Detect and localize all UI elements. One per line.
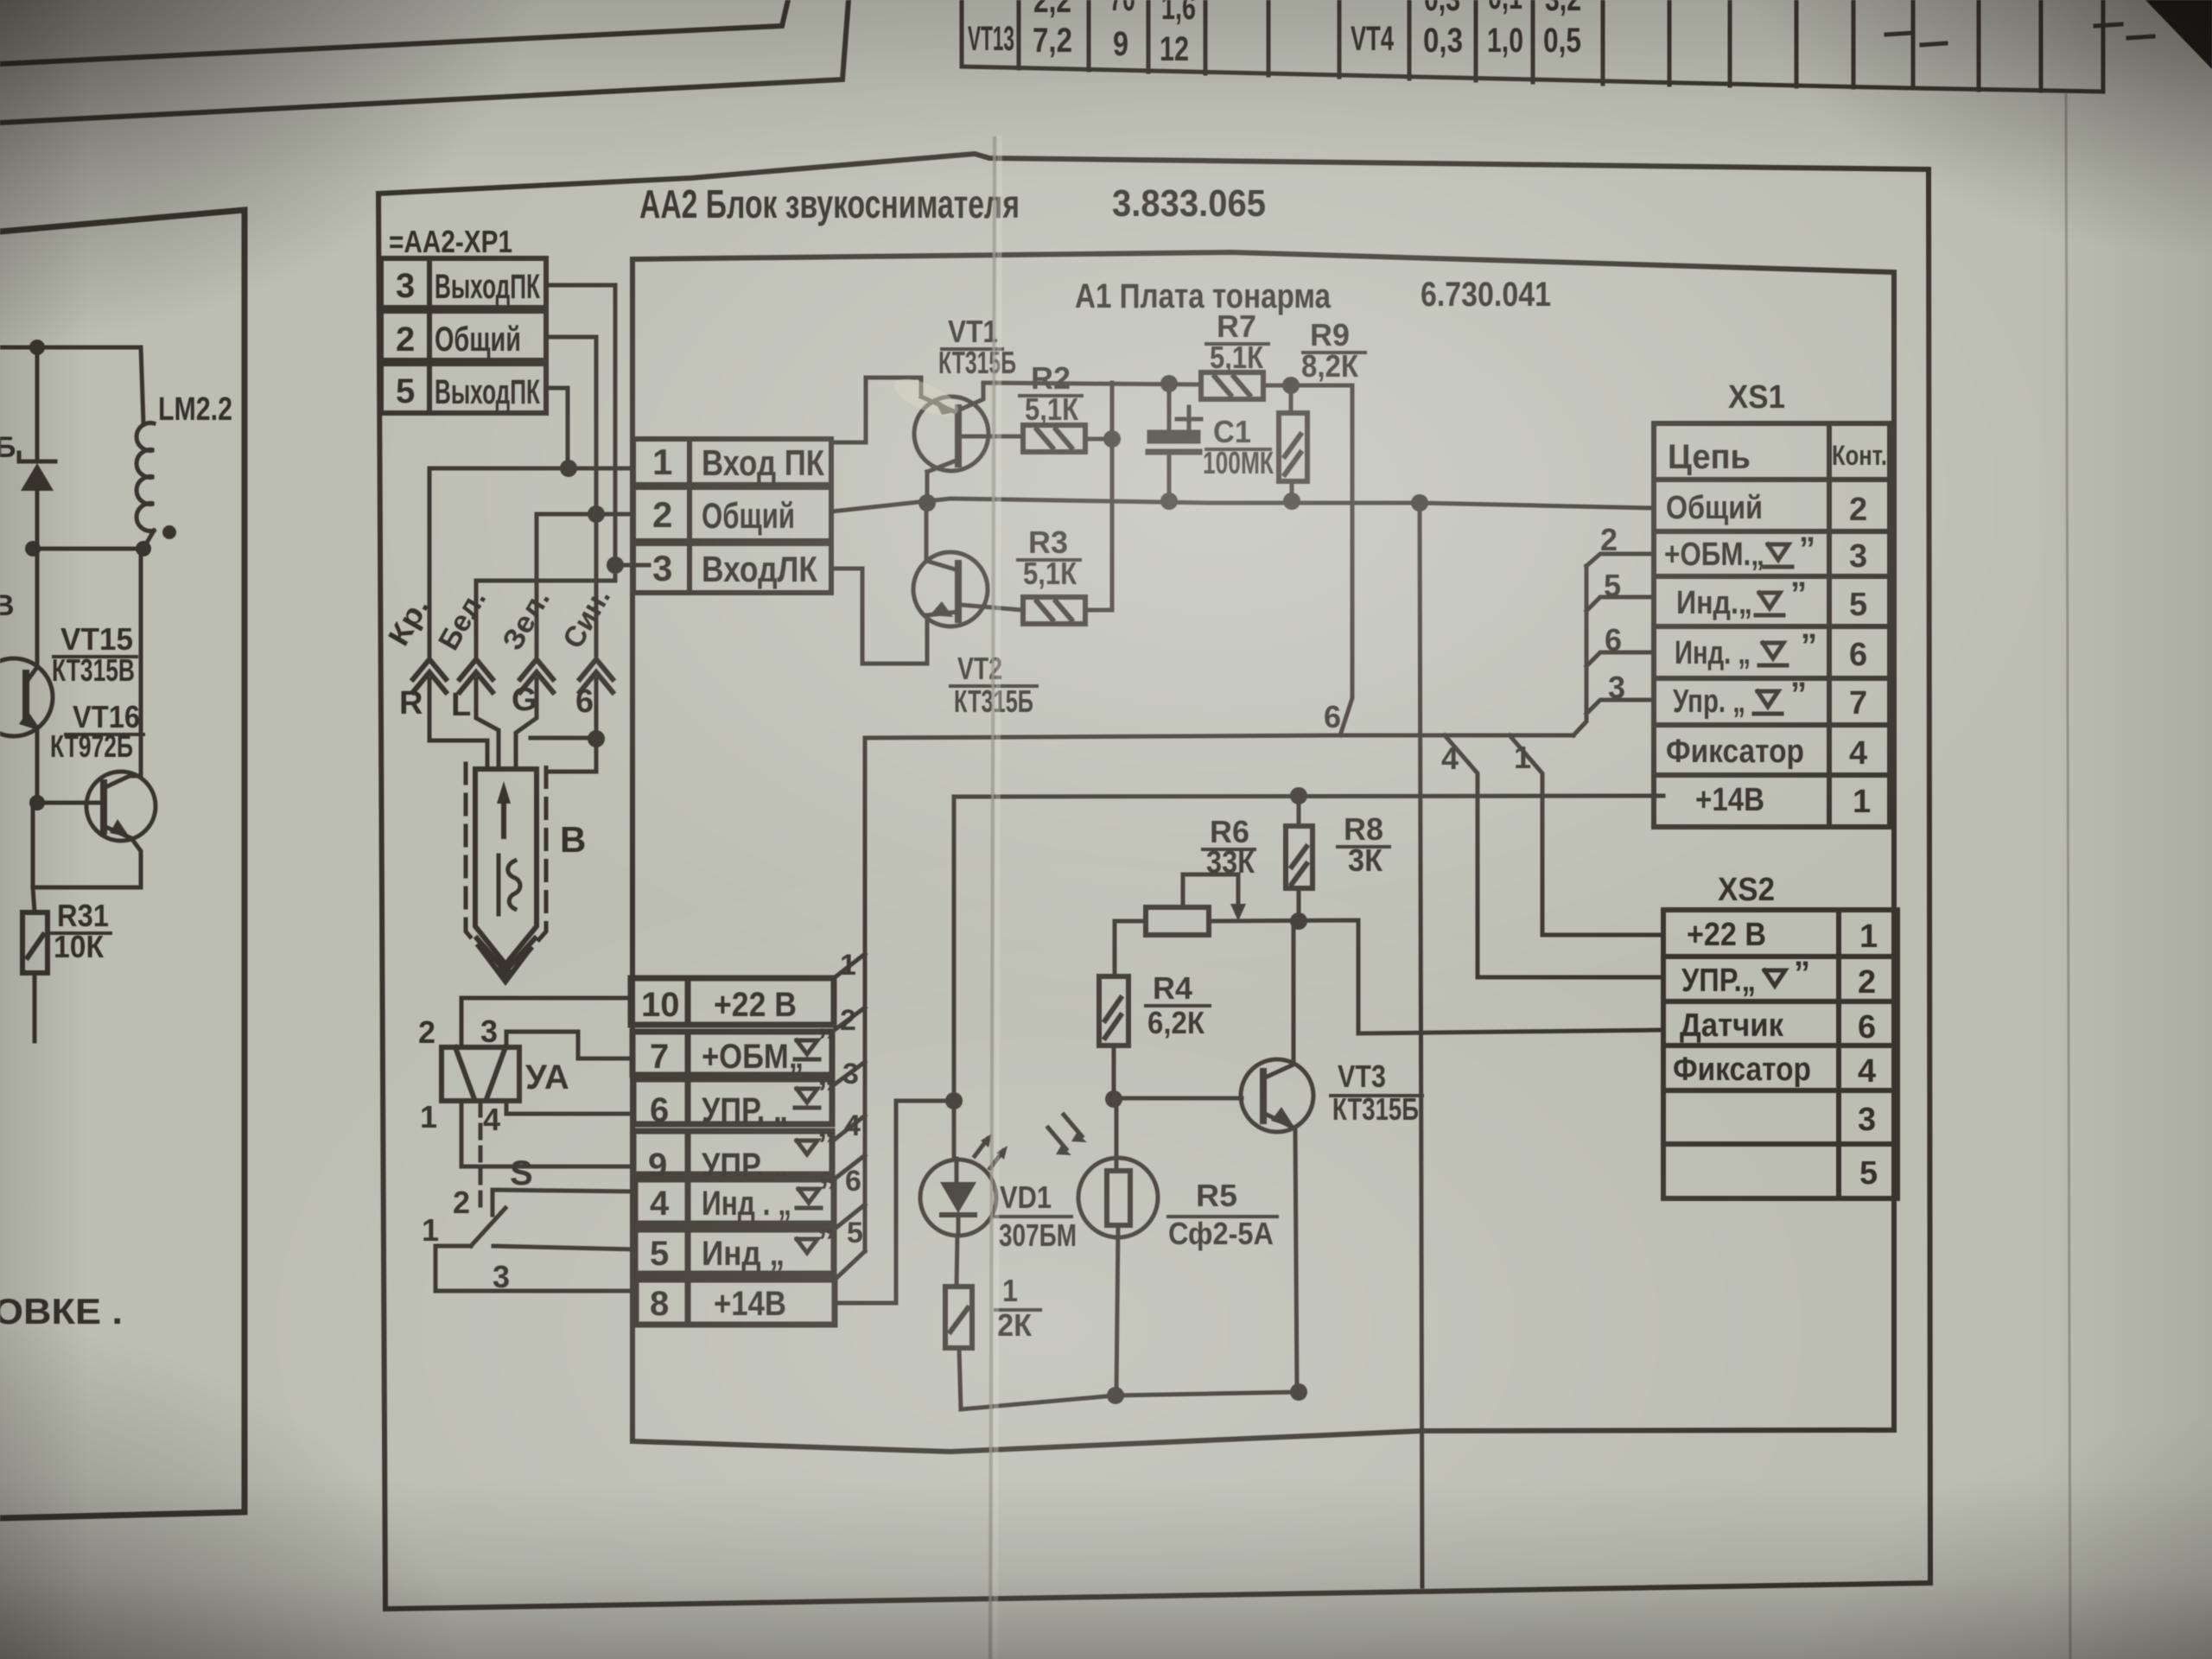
title AA2 Блок звукоснимателя	[639, 181, 1020, 226]
wire R6 left to R4 top	[1115, 921, 1146, 976]
XS1 row +ОБМ flag	[1764, 544, 1792, 567]
node dot R8 top on +14V rail	[1290, 787, 1307, 804]
top table partial upper row text	[1033, 0, 1581, 27]
svg-text:КТ315Б: КТ315Б	[1332, 1091, 1419, 1127]
node dot R5 bottom	[1107, 1387, 1124, 1404]
XS1 row Упр flag	[1754, 691, 1782, 714]
svg-text:G: G	[512, 682, 537, 718]
svg-text:3: 3	[1608, 670, 1625, 705]
svg-text:8,2К: 8,2К	[1301, 348, 1359, 384]
label R3 5,1К	[1018, 524, 1080, 591]
svg-text:VT13: VT13	[968, 20, 1014, 58]
node dot XP1-3 to ВходЛК wire	[607, 556, 624, 574]
connector table lower: row 4 ИНД	[635, 1179, 834, 1224]
cartridge tip chevrons	[477, 938, 535, 982]
XS1 row Общий 2	[1666, 490, 1867, 528]
switch S label	[510, 1154, 533, 1192]
svg-text:Упр. „: Упр. „	[1673, 683, 1745, 720]
wire XS1 bundle stub 2 to +ОБМ row	[1586, 554, 1654, 566]
label LM2.2	[158, 391, 232, 428]
transistor VT2 KT315B	[913, 503, 1023, 626]
resistor R7	[1201, 372, 1263, 399]
svg-text:1: 1	[1853, 784, 1871, 820]
label VT1	[938, 314, 1016, 380]
svg-text:R3: R3	[1028, 524, 1068, 560]
XS1 row Фиксатор 4	[1666, 734, 1867, 772]
svg-text:”: ”	[817, 1126, 835, 1164]
svg-text:3: 3	[493, 1259, 510, 1294]
svg-text:5: 5	[1859, 1155, 1878, 1192]
svg-text:+ОБМ.„: +ОБМ.„	[1664, 537, 1764, 573]
svg-text:Б: Б	[0, 431, 16, 464]
svg-text:6: 6	[1605, 622, 1622, 658]
wire XS1 bundle stub 6 to Инд row	[1586, 652, 1654, 666]
svg-text:0,3: 0,3	[1423, 22, 1463, 60]
input table row 3 text	[652, 548, 817, 589]
row 9 flag symbol	[797, 1141, 817, 1154]
bundle hatch to row7	[832, 1007, 865, 1032]
wire R7 right to R9 and corner	[1263, 384, 1352, 388]
VT1 emitter arrowhead	[933, 397, 956, 415]
svg-text:2: 2	[418, 1014, 435, 1050]
svg-text:9: 9	[1113, 25, 1128, 63]
label R8 3К	[1338, 811, 1389, 878]
XS1 row Упр 7	[1673, 683, 1867, 721]
svg-text:R2: R2	[1031, 360, 1071, 396]
svg-text:8: 8	[650, 1285, 669, 1323]
input table row 1 Вход ПК	[633, 439, 831, 485]
svg-text:Инд.„: Инд.„	[1676, 585, 1752, 621]
left circuit: top supply wire	[0, 347, 143, 423]
relay pin number 1	[420, 1099, 437, 1135]
svg-text:R31: R31	[57, 898, 109, 933]
svg-text:1: 1	[652, 442, 672, 482]
relay solenoid UA	[442, 1047, 519, 1101]
label G	[512, 682, 537, 718]
switch S contact 2	[493, 1190, 635, 1215]
row 7 flag symbol	[795, 1040, 819, 1059]
wire Син continuation down	[594, 514, 599, 655]
connector XS1 table frame	[1654, 423, 1890, 827]
svg-text:307БМ: 307БМ	[999, 1217, 1077, 1253]
svg-text:ВыходПК: ВыходПК	[435, 373, 540, 411]
text fragment ОВКЕ (cut at page edge)	[0, 1291, 123, 1332]
svg-text:4: 4	[650, 1185, 670, 1223]
label wire 4	[844, 1109, 861, 1142]
XS2 row empty 3	[1858, 1102, 1876, 1138]
dashes near top right	[1886, 24, 2153, 45]
VT2 emitter arrowhead	[930, 601, 953, 617]
svg-text:VT2: VT2	[957, 651, 1002, 686]
label R5 Сф2-5А	[1168, 1178, 1277, 1251]
node dot +14V feed join	[945, 1092, 963, 1109]
R6 wiper arrowhead	[1230, 904, 1246, 921]
XS2 row УПР flag	[1764, 970, 1785, 986]
wire row10 +22V to relay UA	[461, 998, 631, 1047]
svg-text:А1 Плата тонарма: А1 Плата тонарма	[1075, 277, 1332, 315]
svg-text:S: S	[510, 1154, 533, 1192]
svg-text:R7: R7	[1217, 308, 1256, 344]
XS1 row Инд6 flag	[1759, 643, 1787, 665]
transistor VT1 KT315B	[914, 383, 1023, 503]
wire cable row horizontal y=852	[865, 735, 1573, 738]
label R	[399, 685, 423, 721]
svg-text:4: 4	[844, 1109, 861, 1142]
svg-text:VT4: VT4	[1351, 20, 1395, 58]
title A1 Плата тонарма	[1075, 277, 1332, 315]
label 4 branch	[1441, 741, 1459, 776]
svg-text:КТ315В: КТ315В	[52, 652, 135, 688]
svg-text:7,2: 7,2	[1033, 22, 1072, 60]
wire XS1 bundle stub 3 to Упр row	[1586, 700, 1654, 714]
svg-text:1: 1	[422, 1212, 439, 1248]
input table row 2 text	[652, 494, 795, 536]
input table row 1 text	[652, 442, 824, 483]
svg-text:VD1: VD1	[1000, 1179, 1052, 1215]
connector table lower: row 5 ИНД	[635, 1230, 834, 1274]
bundle hatch to row4	[834, 1155, 865, 1179]
svg-text:5: 5	[1604, 568, 1621, 603]
row 6 flag symbol	[795, 1089, 819, 1108]
svg-text:Инд . „: Инд . „	[702, 1185, 791, 1223]
svg-text:R: R	[399, 685, 423, 721]
svg-text:”: ”	[817, 1022, 835, 1060]
svg-text:+22 В: +22 В	[714, 986, 797, 1024]
svg-text:ВыходПК: ВыходПК	[435, 268, 540, 306]
svg-text:+14В: +14В	[1695, 782, 1764, 818]
svg-text:3: 3	[396, 267, 415, 305]
svg-text:Сф2-5А: Сф2-5А	[1168, 1216, 1274, 1251]
top table cell text VT13 row	[968, 20, 1581, 68]
connector XP1 row 5 ВыходПК	[381, 364, 546, 413]
wire +14V rail left vertical down to VD1	[952, 797, 957, 1159]
node dot R9 bottom on common bus	[1283, 493, 1300, 510]
wire Общий to Зел chevron	[537, 514, 633, 655]
VT16 emitter arrowhead	[110, 819, 130, 837]
svg-text:3: 3	[480, 1014, 498, 1049]
wire white to cartridge pin	[476, 679, 499, 769]
svg-text:100МК: 100МК	[1203, 445, 1274, 480]
svg-text:7: 7	[650, 1038, 669, 1076]
svg-text:5,1К: 5,1К	[1210, 340, 1264, 375]
XS1 row Инд 6	[1675, 635, 1867, 673]
wire R31 bottom	[33, 973, 37, 1041]
XS2 row empty 5	[1859, 1155, 1878, 1192]
svg-text:Фиксатор: Фиксатор	[1666, 734, 1804, 770]
cable bundle bus right of lower table	[863, 738, 868, 1251]
label 5 bundle	[1604, 568, 1621, 603]
connector XS2 table frame	[1663, 910, 1897, 1198]
svg-text:3: 3	[1849, 538, 1867, 575]
wire XP1 row3 to node	[546, 285, 615, 565]
svg-text:0,1: 0,1	[1488, 0, 1522, 16]
cartridge coil squiggle	[499, 855, 520, 914]
wire XP1 row2 to node	[546, 337, 596, 514]
label 3 bundle	[1608, 670, 1625, 705]
connector XP1 row 5 text	[396, 372, 540, 411]
svg-text:=АА2-ХР1: =АА2-ХР1	[389, 224, 512, 259]
R6 wiper link	[1183, 874, 1238, 912]
svg-text:5: 5	[1849, 587, 1867, 623]
connector XP1 label	[389, 224, 512, 259]
svg-text:Инд „: Инд „	[702, 1235, 785, 1273]
label wire 2	[840, 1004, 856, 1037]
svg-text:5: 5	[396, 372, 415, 410]
svg-text:6: 6	[845, 1165, 861, 1198]
svg-text:3.833.065: 3.833.065	[1112, 182, 1266, 225]
svg-text:2: 2	[1858, 964, 1876, 1001]
bundle hatch to row10	[834, 954, 865, 978]
svg-text:VT1: VT1	[948, 314, 998, 349]
label R31 10К	[52, 898, 111, 964]
XS1 header text	[1668, 438, 1751, 476]
svg-text:4: 4	[483, 1102, 500, 1137]
svg-text:6: 6	[575, 683, 594, 720]
svg-text:Бел.: Бел.	[432, 584, 493, 656]
node dot VT3 emitter bottom	[1290, 1383, 1307, 1401]
resistor R4 vertical	[1099, 976, 1128, 1046]
node dot left rail	[25, 541, 41, 556]
wire +22V vertical from R7R9 node down to cable	[1340, 385, 1352, 735]
svg-text:3: 3	[1858, 1102, 1876, 1138]
wire XS1 bundle stub 5 to Инд row	[1586, 597, 1654, 611]
svg-text:6: 6	[1324, 699, 1341, 734]
svg-text:2: 2	[1849, 492, 1867, 528]
svg-text:1: 1	[1002, 1273, 1018, 1308]
relay mechanical dashed link	[479, 1103, 483, 1213]
node dot VT bases on common bus	[918, 494, 936, 512]
node dot coil bottom	[136, 541, 151, 556]
transistor VT15 (clipped by page edge)	[0, 549, 53, 803]
switch S label 3	[493, 1259, 510, 1294]
wire row6 to relay UA pin4	[506, 1101, 633, 1114]
label R7 5,1К	[1206, 308, 1268, 375]
wire red to cartridge pin	[429, 679, 487, 769]
wire VD1 to R1	[957, 1236, 957, 1287]
svg-text:”: ”	[817, 1074, 835, 1112]
svg-text:10К: 10К	[54, 929, 105, 964]
node dot VT16 base	[29, 795, 45, 810]
switch S label 2	[453, 1185, 470, 1220]
svg-text:”: ”	[1801, 628, 1817, 664]
switch S label 1	[422, 1212, 439, 1248]
svg-text:33К: 33К	[1206, 844, 1255, 880]
node dot ground bus to down wire	[1411, 494, 1428, 512]
cartridge B dashed screen outline	[466, 764, 546, 978]
transistor VT3 KT315B	[1241, 921, 1313, 1392]
node dot C1 bottom on common bus	[1160, 493, 1178, 510]
wire R6 right to VT3 collector node	[1209, 920, 1663, 1033]
svg-text:R4: R4	[1153, 970, 1192, 1006]
svg-text:1: 1	[840, 949, 856, 982]
node dot R8 bottom VT3 collector node	[1290, 912, 1307, 930]
svg-text:2: 2	[453, 1185, 470, 1220]
connector table lower: row 9 УПР	[633, 1131, 832, 1174]
svg-text:5,1К: 5,1К	[1025, 391, 1079, 427]
svg-text:4: 4	[1441, 741, 1459, 776]
resistor R1 2К vertical	[945, 1287, 972, 1348]
svg-text:Общий: Общий	[435, 321, 521, 359]
svg-text:2: 2	[396, 321, 415, 359]
label wire 3	[842, 1058, 859, 1090]
label VT16 КТ972Б	[50, 699, 143, 764]
partial label Б left edge	[0, 431, 16, 464]
XS1 row Инд 5	[1676, 585, 1867, 623]
white correction smudge on VT1	[889, 372, 963, 423]
chevron L on white wire	[460, 659, 493, 692]
svg-text:0,5: 0,5	[1543, 22, 1581, 60]
svg-text:+14В: +14В	[714, 1285, 786, 1323]
zener diode left	[19, 347, 55, 549]
inner block A1 border	[632, 252, 1894, 1452]
svg-text:2К: 2К	[997, 1307, 1033, 1343]
label R1 2К	[995, 1273, 1040, 1343]
svg-text:4: 4	[1858, 1053, 1876, 1090]
wire R8 leads	[1297, 796, 1301, 921]
chevron G2 on blue wire	[580, 659, 613, 692]
LED VD1	[920, 1159, 996, 1236]
resistor R8 vertical	[1286, 826, 1313, 888]
svg-text:2: 2	[840, 1004, 856, 1037]
wire colour label Син.	[556, 582, 617, 654]
node dot blue shield	[588, 730, 605, 747]
bundle hatch to row8	[835, 1251, 865, 1280]
svg-text:5: 5	[847, 1217, 863, 1249]
XS2 row Фиксатор 4	[1673, 1052, 1876, 1090]
svg-text:+22 В: +22 В	[1687, 917, 1766, 953]
svg-text:70: 70	[1109, 0, 1135, 18]
svg-text:3К: 3К	[1348, 842, 1383, 878]
XS2 row Датчик 6	[1680, 1007, 1876, 1046]
node dot C1 top tap	[1160, 375, 1178, 392]
label B cartridge	[560, 819, 586, 860]
svg-text:В: В	[560, 819, 586, 860]
svg-text:5,1К: 5,1К	[1023, 556, 1077, 591]
wire R1 bottom to ground run	[959, 1348, 1299, 1409]
svg-text:3: 3	[652, 548, 672, 588]
label VT15 КТ315В	[52, 621, 137, 688]
cartridge stylus arrow up	[501, 791, 506, 836]
wire R2 right to node	[1085, 437, 1112, 442]
connector XS2 label	[1718, 872, 1775, 908]
label 6 bundle	[1605, 622, 1622, 658]
label VT2	[950, 651, 1037, 719]
wire common ground bus	[831, 499, 1654, 512]
resistor R31	[22, 912, 48, 973]
R5 light arrows	[1048, 1115, 1082, 1149]
svg-text:12: 12	[1160, 30, 1189, 68]
label VT3 КТ315Б	[1331, 1058, 1422, 1127]
label G2	[575, 683, 594, 720]
wire coil bottom to left rail	[33, 547, 143, 551]
VT15 emitter arrowhead	[19, 711, 38, 730]
switch S lever	[471, 1208, 505, 1246]
label R2 5,1К	[1020, 360, 1082, 427]
svg-text:ОВКЕ .: ОВКЕ .	[0, 1291, 123, 1332]
node dot left top wire	[29, 340, 45, 355]
label wire 6	[845, 1165, 861, 1198]
bundle hatch to row5	[834, 1205, 865, 1230]
svg-text:VT3: VT3	[1338, 1058, 1386, 1094]
node dot R2 right	[1103, 430, 1121, 448]
wire R3 right rising to node column	[1085, 383, 1112, 610]
title number 3.833.065	[1112, 182, 1266, 225]
svg-text:10: 10	[641, 986, 680, 1024]
bundle hatch to row9	[832, 1116, 865, 1141]
underlying page edge faint line right side	[2066, 95, 2070, 1659]
coil winding start dot	[162, 525, 176, 539]
connector table lower: row 7 +ОБМ	[632, 1032, 832, 1075]
label 2 bundle	[1600, 522, 1618, 557]
node dot R9 top	[1282, 377, 1300, 394]
svg-text:0,3: 0,3	[1424, 0, 1460, 18]
svg-text:Конт.: Конт.	[1832, 440, 1887, 471]
connector XP1 row 3 ВыходПК	[381, 258, 546, 308]
connector table lower: row 6 УПР	[633, 1079, 832, 1124]
black photo corner wedge top-right	[2145, 0, 2212, 69]
svg-text:Вход ПК: Вход ПК	[702, 442, 824, 483]
wire R9 top lead and bottom lead	[1291, 385, 1292, 501]
connector XP1 row 2 Общий	[381, 311, 546, 360]
wire colour label Кр.	[382, 592, 435, 652]
label wire 5	[847, 1217, 863, 1249]
VT3 emitter arrowhead	[1271, 1107, 1295, 1128]
wire +14V rail horizontal	[954, 796, 1663, 797]
switch S fixed contact 3 wire	[493, 1246, 635, 1249]
wire branch 4 to XS2 УПР	[1445, 735, 1663, 977]
connector XP1 row 2 text	[396, 321, 521, 359]
relay pin number 2	[418, 1014, 435, 1050]
svg-text:Общий: Общий	[702, 495, 795, 536]
wire from table row8 +14В loop	[835, 1101, 954, 1303]
partial label В left edge	[0, 589, 15, 622]
svg-text:2: 2	[1600, 522, 1618, 557]
wire long vertical from ground bus down	[1420, 503, 1422, 1586]
svg-text:Цепь: Цепь	[1668, 438, 1751, 476]
svg-text:1: 1	[1514, 740, 1531, 775]
block AA2 outer border	[378, 154, 1930, 1609]
row 4 flag symbol	[797, 1189, 821, 1208]
wire input1 to VT1 emitter	[831, 378, 921, 442]
wire cable merge diagonal to XS1 bundle	[1573, 566, 1586, 735]
wire input3 to VT2 emitter	[831, 569, 927, 664]
svg-text:С1: С1	[1213, 414, 1251, 449]
svg-text:УПР. „: УПР. „	[702, 1091, 788, 1129]
svg-text:R9: R9	[1310, 317, 1350, 353]
wire row7 to relay UA pin3	[506, 1032, 632, 1058]
photoresistor R5	[1078, 1099, 1158, 1395]
connector XP1 row 3 text	[396, 267, 540, 306]
svg-text:ВходЛК: ВходЛК	[702, 549, 817, 589]
input table row 2 Общий	[633, 487, 831, 541]
svg-text:6.730.041: 6.730.041	[1421, 276, 1551, 314]
capacitor C1	[1148, 384, 1201, 500]
wire R4 bottom to VT3 base node	[1112, 1046, 1116, 1099]
fold crease vertical	[990, 138, 1000, 1659]
svg-text:”: ”	[1799, 531, 1815, 568]
VD1 emission arrows	[975, 1139, 1003, 1168]
XS1 row +14В 1	[1695, 782, 1871, 820]
svg-text:5: 5	[650, 1235, 669, 1273]
svg-text:L: L	[451, 687, 471, 723]
svg-text:LM2.2: LM2.2	[158, 391, 232, 428]
svg-text:VT15: VT15	[60, 621, 133, 657]
switch S pivot wire contact 1	[435, 1246, 636, 1291]
node dot XP1-5 to ВходПК wire	[560, 460, 577, 477]
svg-text:”: ”	[1790, 576, 1807, 613]
svg-text:”: ”	[1794, 956, 1810, 992]
svg-text:3: 3	[842, 1058, 859, 1090]
